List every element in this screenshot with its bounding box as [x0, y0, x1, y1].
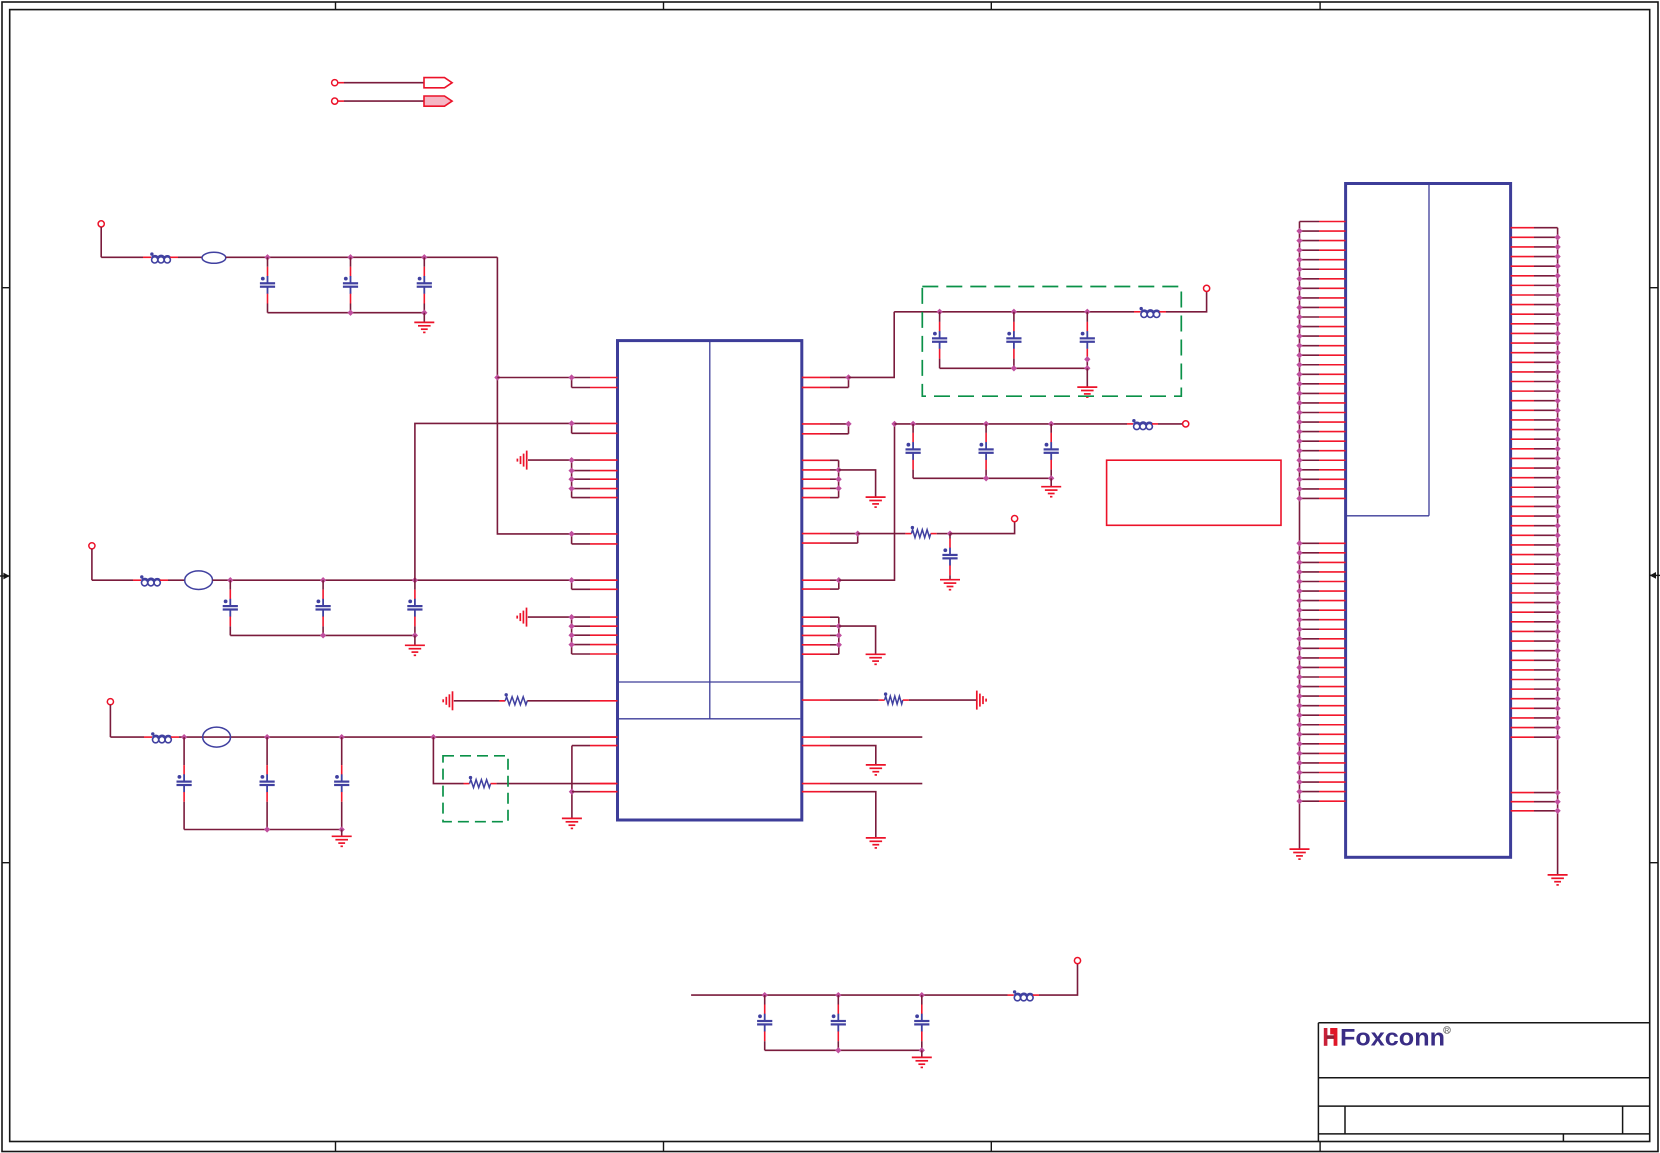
CN1 pin l7 — [1300, 278, 1320, 280]
wire rail3 bus segment B — [179, 736, 618, 738]
junction cb-C14 — [983, 421, 989, 427]
junction U1 groupR2 c — [836, 642, 842, 648]
wire rail2 inductor stub left — [133, 579, 141, 581]
capacitor C16 — [942, 534, 957, 580]
ferrite bead FB6 — [203, 727, 231, 747]
U1 pin L15 (626) — [572, 625, 590, 627]
CN1 pin l51 — [1300, 733, 1320, 735]
junction U1 pairL5 — [568, 577, 574, 583]
U1 pin L22 (783) stub — [590, 783, 618, 785]
ground R3 — [977, 691, 986, 710]
CN1 pin l49 — [1300, 714, 1320, 716]
wire U1 groupR1 to ground — [839, 470, 876, 497]
U1 pin L7 (479) — [572, 478, 590, 480]
U1 pin L21 (745) — [572, 745, 590, 747]
U1 pin R18 (654) — [802, 653, 830, 655]
junction cb-C15 — [1048, 421, 1054, 427]
CN1 pin r2 — [1511, 236, 1534, 238]
capacitor C8 — [260, 737, 275, 829]
wire rail3 inductor stub right — [171, 736, 179, 738]
wire R1 to U1 pin — [497, 783, 590, 785]
CN1 pin l16 — [1300, 364, 1320, 366]
wire rail1 ground stub — [423, 313, 425, 323]
off-page connector arrow 2 — [424, 96, 452, 106]
CN1 pin l52 — [1300, 743, 1320, 745]
CN1 pin l46 — [1300, 686, 1320, 688]
CN1 pin l18 — [1300, 383, 1320, 385]
ground C16 — [940, 580, 960, 590]
U1 pin L8 (488) — [572, 488, 590, 490]
CN1 pin l3 — [1300, 240, 1320, 242]
CN1 pin r16 — [1511, 371, 1534, 373]
CN1 pin l9 — [1300, 297, 1320, 299]
CN1 pin l23 — [1300, 431, 1320, 433]
wire U1 left group1 ground lead — [528, 459, 572, 461]
U1 pin L1 (377) — [572, 377, 590, 379]
wire net out 737 — [830, 736, 922, 738]
CN1 pin r14 — [1511, 352, 1534, 354]
wire rail3 drop — [109, 705, 111, 737]
CN1 pin l24 — [1300, 440, 1320, 442]
junction rail2-C5 — [320, 577, 326, 583]
inductor FB5 — [151, 732, 171, 743]
U1 pin R17 (644) — [802, 644, 830, 646]
wire U1 pairL2 join — [571, 423, 573, 433]
wire bb inductor stub right — [1033, 994, 1039, 996]
CN1 pin r35 — [1511, 554, 1534, 556]
CN1 pin r55 — [1511, 792, 1534, 794]
CN1 pin l2 — [1300, 230, 1320, 232]
junction rail1-ret-C2 — [347, 310, 353, 316]
node P6 - output pin — [1183, 421, 1189, 427]
CN1 pin r43 — [1511, 630, 1534, 632]
capacitor C12 — [1080, 312, 1095, 369]
U1 pin R11 (543) — [802, 542, 830, 544]
junction U1 pairR1 — [845, 374, 851, 380]
CN1 pin r15 — [1511, 361, 1534, 363]
wire U1 pairL5 join — [571, 580, 573, 589]
node P4 - test point — [1012, 516, 1018, 522]
U1 pin L20 (737) stub — [590, 736, 618, 738]
wire rail2 bus segment A — [92, 579, 133, 581]
inductor FB7 — [1140, 307, 1160, 318]
CN1 pin r24 — [1511, 448, 1534, 450]
CN1 pin r11 — [1511, 323, 1534, 325]
wire node to pin P4 — [950, 522, 1015, 534]
node A - off-page arrow output 1 — [332, 80, 338, 86]
node P5 - output pin — [1204, 285, 1210, 291]
wire U1 pairL1 join — [571, 378, 573, 388]
wire cb to pin P6 — [1158, 423, 1183, 425]
CN1 pin l14 — [1300, 345, 1320, 347]
U1 pin R2 (387) — [802, 386, 830, 388]
wire gb inductor stub right — [1159, 311, 1166, 313]
ground greenbox — [1077, 387, 1097, 397]
junction U1 groupL2 b — [568, 623, 574, 629]
wire bb cap return bus — [765, 1049, 922, 1051]
CN1 pin l38 — [1300, 609, 1320, 611]
wire gb cap return bus — [940, 367, 1088, 369]
off-page connector arrow 1 — [424, 78, 452, 88]
CN1 pin r54 — [1511, 736, 1534, 738]
U1 pin R9 (497) — [802, 497, 830, 499]
junction cb-C13 — [910, 421, 916, 427]
CN1 pin l29 — [1300, 488, 1320, 490]
CN1 pin r42 — [1511, 621, 1534, 623]
junction gb-C12 — [1084, 309, 1090, 315]
CN1 pin l30 — [1300, 497, 1320, 499]
CN1 pin l57 — [1300, 791, 1320, 793]
wire rail1 cap return bus — [268, 312, 425, 314]
junction bb-C17 — [762, 992, 768, 998]
wire rail2 cap return bus — [230, 634, 415, 636]
CN1 pin r8 — [1511, 294, 1534, 296]
junction cb-ret-C14 — [983, 475, 989, 481]
wire rail1 bus segment C — [226, 256, 498, 258]
CN1 pin l37 — [1300, 600, 1320, 602]
CN1 pin r22 — [1511, 429, 1534, 431]
ground capsbus — [1041, 487, 1061, 497]
CN1 pin r23 — [1511, 438, 1534, 440]
inductor FB8 — [1132, 419, 1152, 430]
ground U1 bottom-right 2 — [866, 838, 886, 848]
U1 pin R5 (460) — [802, 459, 830, 461]
junction rail2-C4 — [227, 577, 233, 583]
CN1 pin r38 — [1511, 582, 1534, 584]
CN1 pin l34 — [1300, 571, 1320, 573]
CN1 pin l4 — [1300, 249, 1320, 251]
capacitor C1 — [260, 257, 275, 312]
wire rail2 drop — [91, 549, 93, 580]
junction U1 791 join — [569, 789, 575, 795]
CN1 pin l36 — [1300, 590, 1320, 592]
CN1 pin l25 — [1300, 450, 1320, 452]
wire U1 left group2 ground lead — [528, 616, 572, 618]
CN1 pin r17 — [1511, 381, 1534, 383]
wire R4 feed — [858, 533, 906, 535]
capacitor C6 — [407, 580, 422, 635]
U1 pin R14 (617) — [802, 616, 830, 618]
CN1 pin l6 — [1300, 268, 1320, 270]
CN1 pin r48 — [1511, 679, 1534, 681]
CN1 pin r25 — [1511, 457, 1534, 459]
U1 pin L11 (543) — [572, 543, 590, 545]
ground U1 bottom-right 1 — [866, 765, 886, 775]
resistor R2 — [505, 697, 527, 705]
wire R4 left lead — [905, 533, 911, 535]
junction rail3-greenbox — [430, 734, 436, 740]
CN1 pin r46 — [1511, 659, 1534, 661]
wire rail2 riser to U1 pair2 — [415, 423, 572, 580]
U1 pin R12 (580) — [802, 579, 830, 581]
CN1 pin r9 — [1511, 304, 1534, 306]
junction R4 node — [947, 530, 953, 536]
U1 pin L12 (580) — [572, 579, 590, 581]
junction U1 groupL2 c — [568, 632, 574, 638]
CN1 pin l1 — [1300, 221, 1320, 223]
junction U1 groupL1 a — [568, 457, 574, 463]
capacitor C7 — [177, 737, 192, 829]
junction U1 pairR4 — [855, 530, 861, 536]
CN1 pin r5 — [1511, 265, 1534, 267]
ferrite bead FB2 — [202, 252, 226, 263]
junction rail3-ret-C8 — [264, 826, 270, 832]
junction U1 groupR1 b — [835, 476, 841, 482]
junction U1 pairL1 — [568, 374, 574, 380]
junction rail2-C6 — [412, 577, 418, 583]
CN1 pin r21 — [1511, 419, 1534, 421]
junction rail2-ret-C6 — [412, 632, 418, 638]
U1 pin R20 (737) stub — [802, 736, 830, 738]
resistor R1 — [470, 780, 491, 788]
CN1 pin r34 — [1511, 544, 1534, 546]
U1 pin R10 (533) — [802, 533, 830, 535]
capacitor C3 — [417, 257, 432, 312]
wire U1 pairR1 join — [848, 377, 850, 387]
CN1 pin r28 — [1511, 486, 1534, 488]
junction U1 groupL1 d — [568, 485, 574, 491]
U1 pin L10 (533) — [572, 533, 590, 535]
CN1 pin l13 — [1300, 335, 1320, 337]
capacitor C11 — [1006, 312, 1021, 369]
wire R4 right lead — [931, 533, 937, 535]
capacitor C17 — [757, 995, 772, 1050]
ground bottom bus — [912, 1057, 932, 1067]
U1 pin R13 (589) — [802, 588, 830, 590]
CN1 pin l39 — [1300, 619, 1320, 621]
wire U1 pairR4 join — [857, 534, 859, 544]
CN1 pin l21 — [1300, 412, 1320, 414]
CN1 pin r20 — [1511, 409, 1534, 411]
junction rail3-ret-C9 — [339, 826, 345, 832]
junction rail1-C3 — [421, 254, 427, 260]
junction rail3-C8 — [264, 734, 270, 740]
CN1 pin l15 — [1300, 354, 1320, 356]
wire U1 groupL2 join — [571, 617, 573, 654]
CN1 pin l55 — [1300, 772, 1320, 774]
svg-text:R: R — [1445, 1029, 1450, 1035]
wire R1 right lead — [491, 783, 497, 785]
wire U1 pairR2 join — [848, 424, 850, 434]
CN1 pin l43 — [1300, 657, 1320, 659]
wire CN1 left bus — [1299, 222, 1301, 850]
ground U1 right group2 — [866, 654, 886, 664]
capacitor C14 — [979, 424, 994, 478]
CN1 pin r6 — [1511, 275, 1534, 277]
junction bb-ret-C18 — [835, 1047, 841, 1053]
CN1 pin l8 — [1300, 287, 1320, 289]
CN1 pin r13 — [1511, 342, 1534, 344]
CN1 pin r36 — [1511, 563, 1534, 565]
wire rail3 cap return bus — [184, 829, 342, 831]
U1 pin R1 (377) — [802, 376, 830, 378]
CN1 pin l22 — [1300, 421, 1320, 423]
CN1 pin r30 — [1511, 505, 1534, 507]
wire rail2 bus segment B — [168, 579, 185, 581]
capacitor C10 — [932, 312, 947, 369]
junction U1 groupL2 d — [568, 641, 574, 647]
CN1 pin l58 — [1300, 800, 1320, 802]
junction U1 pairR2 — [845, 421, 851, 427]
junction caps-bus left — [891, 421, 897, 427]
U1 pin L19 (700) stub — [590, 700, 618, 702]
CN1 pin r1 — [1511, 227, 1534, 229]
op-amp U1 body — [618, 341, 802, 820]
U1 pin R6 (469) — [802, 469, 830, 471]
CN1 pin l10 — [1300, 306, 1320, 308]
wire CN1 right bus — [1557, 228, 1559, 875]
CN1 pin l32 — [1300, 552, 1320, 554]
CN1 pin l20 — [1300, 402, 1320, 404]
junction rail1 at U1 pin row 377 — [494, 374, 500, 380]
U1 pin R21 (745) — [802, 745, 830, 747]
CN1 pin l50 — [1300, 724, 1320, 726]
CN1 pin r56 — [1511, 801, 1534, 803]
capacitor C9 — [334, 737, 349, 829]
wire bb to pin P7 — [1039, 964, 1078, 995]
wire - arrow 2 lead — [338, 100, 344, 102]
wire rail3 ground stub — [341, 830, 343, 837]
U1 pin R15 (626) — [802, 625, 830, 627]
capacitor C13 — [906, 424, 921, 478]
ground U1 bottom-left — [562, 818, 582, 828]
wire bb inductor stub left — [1008, 994, 1014, 996]
wire R4 to node — [937, 533, 950, 535]
wire R1 left lead — [464, 783, 470, 785]
U1 pin L2 (387) — [572, 387, 590, 389]
CN1 pin l33 — [1300, 561, 1320, 563]
resistor R3 — [885, 696, 903, 704]
CN1 pin l41 — [1300, 638, 1320, 640]
junction rail1-C1 — [264, 254, 270, 260]
U1 pin L16 (635) — [572, 634, 590, 636]
CN1 pin r39 — [1511, 592, 1534, 594]
U1 pin R22 (783) stub — [802, 783, 830, 785]
wire R1 branch — [433, 737, 463, 784]
CN1 pin r18 — [1511, 390, 1534, 392]
CN1 pin l54 — [1300, 762, 1320, 764]
CN1 pin r47 — [1511, 669, 1534, 671]
CN1 pin l45 — [1300, 676, 1320, 678]
CN1 pin r32 — [1511, 525, 1534, 527]
U1 pin L9 (497) — [572, 497, 590, 499]
U1 pin L23 (791) — [572, 791, 590, 793]
junction U1 pairL4 — [568, 531, 574, 537]
wire bb ground stub — [921, 1050, 923, 1057]
svg-text:Foxconn: Foxconn — [1340, 1024, 1445, 1051]
junction gb-C11 — [1011, 309, 1017, 315]
CN1 pin r49 — [1511, 688, 1534, 690]
ground U1 right group1 — [866, 497, 886, 507]
CN1 pin l31 — [1300, 542, 1320, 544]
U1 pin L5 (460) — [572, 459, 590, 461]
wire rail1 feed down to U1 — [497, 257, 571, 534]
wire gb inductor stub left — [1134, 311, 1140, 313]
inductor FB3 — [140, 575, 160, 586]
junction U1 groupL2 a — [568, 614, 574, 620]
wire bottom bus — [691, 994, 1007, 996]
U1 pin R3 (423) — [802, 423, 830, 425]
wire U1 745R to ground — [830, 746, 876, 765]
U1 pin L17 (644) — [572, 644, 590, 646]
wire U1 groupL1 join — [571, 460, 573, 498]
ground rail2 — [405, 645, 425, 655]
CN1 pin r45 — [1511, 650, 1534, 652]
CN1 pin l44 — [1300, 666, 1320, 668]
capacitor C19 — [914, 995, 929, 1050]
inductor FB1 — [150, 252, 170, 263]
junction gb-C10 — [936, 309, 942, 315]
U1 pin L14 (617) — [572, 616, 590, 618]
capacitor C15 — [1044, 424, 1059, 478]
junction rail3-C9 — [339, 734, 345, 740]
CN1 pin r53 — [1511, 727, 1534, 729]
wire gb ground stub — [1086, 368, 1088, 387]
connector CN1 body — [1346, 184, 1511, 858]
wire net out 783 — [830, 783, 922, 785]
junction gb-ret-C12a — [1084, 356, 1090, 362]
U1 pin L3 (423) — [572, 422, 590, 424]
CN1 pin l5 — [1300, 259, 1320, 261]
CN1 pin r4 — [1511, 256, 1534, 258]
green dashed annotation box 1 — [922, 287, 1181, 397]
CN1 pin l40 — [1300, 628, 1320, 630]
ground R2 — [443, 691, 452, 710]
junction U1 groupR2 a — [836, 623, 842, 629]
junction U1 groupR1 c — [835, 485, 841, 491]
wire R3 feed — [830, 699, 879, 701]
junction rail1-ret-C3 — [421, 310, 427, 316]
CN1 pin r26 — [1511, 467, 1534, 469]
ground U1 left group1 — [517, 451, 526, 470]
wire rail1 bus segment B — [178, 256, 202, 258]
wire rail2 inductor stub right — [160, 579, 168, 581]
CN1 pin l17 — [1300, 373, 1320, 375]
U1 pin L18 (654) — [572, 653, 590, 655]
CN1 pin r19 — [1511, 400, 1534, 402]
CN1 pin r50 — [1511, 698, 1534, 700]
CN1 pin r12 — [1511, 332, 1534, 334]
capacitor C18 — [831, 995, 846, 1050]
wire rail1 drop — [100, 227, 102, 257]
U1 pin R19 (700) stub — [802, 699, 830, 701]
CN1 pin r41 — [1511, 611, 1534, 613]
wire R2 to U1 — [527, 700, 590, 702]
junction U1 groupR2 b — [836, 632, 842, 638]
red annotation box — [1107, 460, 1281, 525]
U1 pin L6 (470) — [572, 470, 590, 472]
CN1 pin r31 — [1511, 515, 1534, 517]
CN1 pin l42 — [1300, 647, 1320, 649]
U1 pin R23 (791) — [802, 791, 830, 793]
CN1 pin r33 — [1511, 534, 1534, 536]
wire U1 groupR1 join — [838, 460, 840, 497]
node P3 - power input pin rail 3 — [107, 699, 113, 705]
junction U1 groupL1 c — [568, 476, 574, 482]
CN1 pin l56 — [1300, 781, 1320, 783]
junction U1 groupR1 a — [835, 467, 841, 473]
junction bb-C19 — [919, 992, 925, 998]
wire capsbus — [895, 423, 1128, 425]
node P1 - power input pin rail 1 — [98, 221, 104, 227]
wire rail3 inductor stub left — [144, 736, 152, 738]
wire cb inductor stub right — [1152, 423, 1158, 425]
resistor R4 — [911, 530, 930, 538]
junction bb-C18 — [835, 992, 841, 998]
ground U1 left group2 — [517, 608, 526, 627]
wire U1 pairR5 riser — [839, 424, 895, 580]
wire R2 ground lead — [454, 700, 505, 702]
